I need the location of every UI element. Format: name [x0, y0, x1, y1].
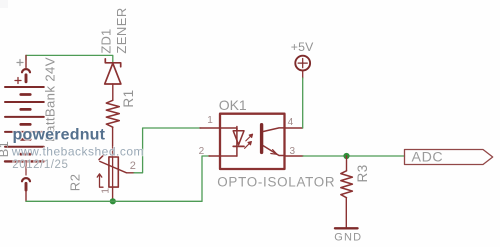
+5V supply circle [295, 56, 310, 71]
battery B1 top pin [25, 55, 27, 67]
ground symbol bar [335, 227, 358, 229]
battery plate long 4 [5, 131, 44, 133]
svg-text:1: 1 [207, 115, 213, 126]
battery plate long 6 [5, 160, 44, 162]
resistor R3 zigzag [341, 171, 353, 198]
svg-text:+5V: +5V [291, 40, 314, 54]
battery plate short 1 [21, 93, 30, 96]
opto LED cathode lead [220, 155, 237, 157]
svg-text:4: 4 [288, 117, 294, 128]
wire: battery + to zener top [26, 55, 113, 62]
junction dot at R2 bottom [110, 198, 116, 204]
battery bottom link wire [25, 162, 27, 175]
svg-text:ADC: ADC [412, 149, 444, 165]
battery plate short 4 [21, 138, 30, 141]
zener diode ZD1 cathode bar [105, 59, 120, 67]
opto LED axis wire [236, 127, 238, 157]
+5V pin stub [302, 71, 304, 78]
opto LED triangle [233, 131, 244, 145]
wire R1 to R2 [112, 127, 114, 157]
svg-text:3: 3 [290, 146, 296, 157]
battery plate short 2 [21, 108, 30, 111]
svg-text:R2: R2 [68, 173, 83, 191]
trimmer R2 adjust arrow [97, 174, 103, 187]
+5V plus mark [298, 59, 307, 68]
wire battery minus bottom run [26, 200, 202, 202]
opto OK1 pin1 stub [200, 127, 220, 129]
svg-text:2: 2 [130, 160, 136, 172]
battery plate long 5 [5, 146, 44, 148]
trimmer R2 wiper pin elbow [127, 172, 135, 174]
faint corner square [0, 0, 8, 8]
battery plate short 3 [21, 123, 30, 126]
resistor R1 zigzag [106, 100, 119, 127]
battery B1 bottom pin [25, 190, 27, 201]
svg-text:GND: GND [334, 231, 362, 243]
svg-text:OK1: OK1 [219, 97, 247, 113]
svg-text:R3: R3 [355, 164, 370, 182]
wire opto pin3 to ADC [303, 155, 405, 157]
battery plate short 5 [21, 153, 30, 156]
battery plate long 1 [5, 86, 44, 88]
wire R2 bottom to junction [112, 187, 114, 201]
opto OK1 pin2 stub [209, 155, 220, 157]
opto LED anode lead [220, 128, 237, 131]
svg-text:ZD1: ZD1 [98, 29, 113, 54]
battery plate long 2 [5, 101, 44, 103]
svg-text:www.thebackshed.com: www.thebackshed.com [11, 144, 144, 158]
wire zener anode to R1 [112, 84, 114, 100]
opto OK1 body box [220, 114, 285, 169]
opto phototransistor collector [263, 128, 285, 132]
junction dot at R3 top [343, 153, 349, 159]
svg-text:2: 2 [199, 146, 205, 157]
opto LED cathode bar [233, 145, 244, 147]
svg-text:ZENER: ZENER [114, 7, 129, 53]
battery plus mark upper (gray, near wire) [17, 60, 23, 66]
battery plate long 3 [5, 116, 44, 118]
ADC flag outline [405, 150, 493, 165]
opto phototransistor emitter [263, 146, 285, 156]
opto light arrow 1 [246, 134, 253, 141]
wire R3 to GND [345, 198, 347, 227]
opto OK1 pin3 stub [285, 155, 303, 157]
svg-text:powerednut: powerednut [13, 127, 106, 144]
trimmer R2 internal lead [112, 157, 114, 187]
svg-text:B1: B1 [0, 141, 11, 158]
battery B1 top clip nub [25, 75, 28, 82]
battery B1 bottom clip nub [25, 183, 28, 190]
trimmer R2 wiper diagonal [100, 161, 127, 172]
svg-text:OPTO-ISOLATOR: OPTO-ISOLATOR [217, 175, 335, 190]
opto emitter arrowhead [271, 150, 277, 155]
wire bottom run up to opto pin2 [202, 156, 210, 201]
wire +5V to opto pin4 [302, 78, 304, 128]
opto light arrow 2 [245, 142, 252, 149]
opto OK1 pin4 stub [285, 127, 303, 129]
wire junction to R3 [346, 156, 348, 171]
svg-text:1: 1 [100, 188, 112, 194]
svg-text:2012/1/25: 2012/1/25 [12, 159, 68, 171]
svg-text:R1: R1 [121, 89, 136, 107]
trimmer R2 body box [109, 157, 118, 187]
wire R2 wiper to opto pin1 [134, 128, 201, 173]
battery plus mark lower (red) [15, 78, 21, 84]
battery B1 top clip arc [22, 69, 30, 72]
trimmer R2 screwdriver slot tick [99, 155, 104, 160]
battery B1 bottom clip arc [22, 178, 30, 181]
opto phototransistor base bar [260, 125, 263, 153]
zener diode ZD1 triangle [105, 63, 121, 84]
